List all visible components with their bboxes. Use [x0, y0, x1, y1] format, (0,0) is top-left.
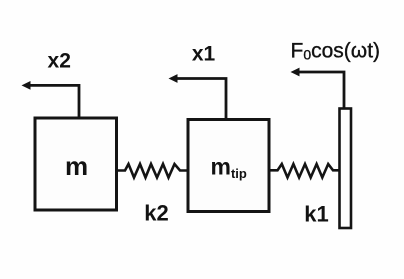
svg-text:k2: k2: [144, 201, 168, 226]
svg-text:m: m: [65, 151, 88, 181]
svg-text:x2: x2: [48, 50, 71, 73]
spring k2 (between m and m_tip): [117, 164, 190, 178]
arrow x1 (displacement of mass m_tip): [169, 74, 227, 119]
svg-text:k1: k1: [304, 202, 328, 227]
svg-text:x1: x1: [192, 43, 216, 66]
arrow x2 (displacement of mass m): [22, 81, 80, 118]
wall bar (right thin plate): [340, 109, 352, 229]
spring k1 (between m_tip and wall bar): [268, 164, 340, 178]
mass m_tip (middle block): [188, 120, 269, 212]
mass m (left block): [35, 118, 117, 210]
arrow F0cos(wt) (forcing on wall bar): [291, 68, 345, 109]
